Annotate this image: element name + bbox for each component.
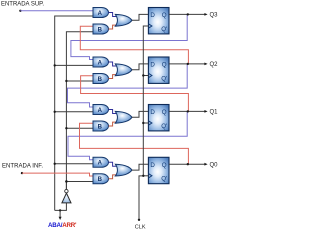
wire bus ARR branch to A3 bottom input bbox=[55, 111, 93, 113]
junction CLK row 4 bbox=[142, 175, 144, 177]
svg-text:B: B bbox=[98, 77, 103, 83]
wire ENTRADA INF to gate B4 top input bbox=[22, 173, 93, 176]
junction inverter output bbox=[65, 180, 67, 182]
wire Q3 output bbox=[169, 13, 205, 15]
svg-text:Q': Q' bbox=[161, 26, 167, 33]
wire B3 output to OR3 bbox=[109, 122, 117, 126]
OR gate O1 bbox=[115, 14, 132, 26]
wire Q0 feedback to gate B3 top input bbox=[80, 123, 189, 164]
arrowhead Q0 bbox=[204, 163, 207, 166]
arrowhead Q2 bbox=[204, 63, 207, 66]
svg-text:Q': Q' bbox=[161, 123, 167, 130]
wire bus ABA branch to B2 bottom input bbox=[66, 80, 93, 82]
OR gate O3 bbox=[115, 111, 132, 123]
wire CLK stem bbox=[139, 176, 143, 220]
node ABA/ARR junction bbox=[59, 209, 61, 211]
svg-text:A: A bbox=[98, 161, 103, 167]
wire CLK branch to FF2 bbox=[143, 75, 148, 77]
wire OR1 output to D input of FF1 bbox=[132, 14, 148, 20]
svg-text:Q: Q bbox=[162, 12, 167, 19]
D flip-flop FF1 bbox=[148, 8, 169, 34]
AND gate B4 bbox=[93, 174, 109, 184]
svg-text:B: B bbox=[98, 124, 103, 130]
wire Q0 output bbox=[169, 163, 205, 165]
svg-text:Q1: Q1 bbox=[210, 110, 219, 116]
D flip-flop FF2 bbox=[148, 57, 169, 83]
wire Q1 output bbox=[169, 110, 205, 112]
wire B4 output to OR4 bbox=[109, 175, 117, 179]
wire Q2 feedback to gate B1 top input bbox=[80, 26, 188, 64]
wire CLK branch to FF3 bbox=[143, 122, 148, 124]
svg-text:Q0: Q0 bbox=[210, 163, 219, 169]
D flip-flop FF3 bbox=[148, 105, 169, 131]
svg-text:A: A bbox=[98, 60, 103, 66]
svg-text:Q': Q' bbox=[161, 176, 167, 183]
junction on bus ARR row 2 bbox=[54, 64, 56, 66]
AND gate A4 bbox=[93, 157, 109, 167]
svg-text:Q2: Q2 bbox=[210, 62, 219, 68]
AND gate B1 bbox=[93, 24, 109, 34]
wire bus ABA branch to B3 bottom input bbox=[66, 127, 93, 129]
arrowhead Q3 bbox=[204, 13, 207, 16]
wire B1 output to OR1 bbox=[109, 25, 117, 29]
svg-text:B: B bbox=[98, 27, 103, 33]
svg-text:Q: Q bbox=[162, 162, 167, 169]
wire Q2 output bbox=[169, 63, 205, 65]
svg-text:Q: Q bbox=[162, 62, 167, 69]
svg-text:Q: Q bbox=[162, 109, 167, 116]
AND gate B3 bbox=[93, 121, 109, 131]
svg-text:Q': Q' bbox=[161, 75, 167, 82]
svg-text:CLK: CLK bbox=[135, 224, 146, 230]
junction node Q1 bbox=[187, 110, 189, 112]
wire bus ABA (inverted control from inverter, to B gates) bbox=[66, 32, 93, 190]
wire A4 output to OR4 bbox=[109, 162, 117, 166]
OR gate O2 bbox=[115, 64, 132, 76]
wire inverter output to bus ABA bbox=[65, 182, 67, 190]
wire A2 output to OR2 bbox=[109, 62, 117, 66]
wire Q1 feedback to gate B2 top input bbox=[81, 76, 189, 112]
svg-text:ENTRADA INF.: ENTRADA INF. bbox=[2, 164, 43, 170]
wire OR2 output to D input of FF2 bbox=[132, 64, 148, 70]
svg-text:D: D bbox=[150, 109, 155, 116]
AND gate B2 bbox=[93, 74, 109, 84]
wire bus ARR branch to A4 bottom input bbox=[55, 163, 93, 165]
OR gate O4 bbox=[115, 164, 132, 176]
wire Q2 feedback to gate A3 top input bbox=[68, 64, 188, 107]
junction CLK row 3 bbox=[142, 122, 144, 124]
node ENTRADA INF bbox=[21, 172, 23, 174]
wire bus ARR branch to A2 bottom input bbox=[55, 64, 93, 66]
svg-text:ABA/ARR': ABA/ARR' bbox=[48, 222, 77, 229]
svg-text:A: A bbox=[98, 11, 103, 17]
D flip-flop FF4 bbox=[148, 157, 169, 183]
svg-text:Q3: Q3 bbox=[210, 13, 219, 19]
node CLK bottom bbox=[138, 219, 140, 221]
svg-text:B: B bbox=[98, 177, 103, 183]
junction on bus ABA row 3 bbox=[65, 127, 67, 129]
wire control junction horizontal bbox=[55, 203, 67, 211]
wire bus ABA branch to B4 bottom input bbox=[66, 181, 93, 183]
wire B2 output to OR2 bbox=[109, 75, 117, 79]
inverter N1 bbox=[62, 189, 71, 202]
wire A1 output to OR1 bbox=[109, 13, 117, 17]
AND gate A2 bbox=[93, 57, 109, 67]
junction on bus ABA row 4 bbox=[65, 180, 67, 182]
svg-text:D: D bbox=[150, 162, 155, 169]
junction node Q3 bbox=[187, 13, 189, 15]
svg-text:D: D bbox=[150, 62, 155, 69]
wire ENTRADA SUP to gate A1 top input bbox=[20, 10, 93, 12]
wire CLK bus vertical bbox=[143, 26, 148, 176]
arrowhead Q1 bbox=[204, 110, 207, 113]
wire Q1 feedback to gate A4 top input bbox=[68, 111, 187, 159]
wire Q3 feedback to gate A2 top input bbox=[71, 14, 187, 59]
wire OR4 output to D input of FF4 bbox=[132, 164, 148, 170]
junction node Q0 bbox=[187, 163, 189, 165]
wire CLK branch to FF4 bbox=[143, 175, 148, 177]
wire bus ARR (non-inverted control, to A gates) bbox=[55, 16, 93, 210]
junction CLK row 2 bbox=[142, 74, 144, 76]
svg-text:A: A bbox=[98, 108, 103, 114]
junction on bus ABA row 2 bbox=[65, 80, 67, 82]
wire A3 output to OR3 bbox=[109, 110, 117, 114]
wire OR3 output to D input of FF3 bbox=[132, 111, 148, 117]
arrowhead ABA/ARR input bbox=[59, 217, 62, 220]
svg-text:ENTRADA SUP.: ENTRADA SUP. bbox=[1, 2, 44, 8]
AND gate A3 bbox=[93, 105, 109, 115]
AND gate A1 bbox=[93, 8, 109, 18]
junction on bus ARR row 3 bbox=[54, 111, 56, 113]
node ENTRADA SUP bbox=[19, 10, 21, 12]
svg-text:D: D bbox=[150, 12, 155, 19]
junction node Q2 bbox=[187, 63, 189, 65]
junction on bus ARR row 4 bbox=[54, 163, 56, 165]
wire ABA/ARR input stem bbox=[59, 210, 61, 217]
